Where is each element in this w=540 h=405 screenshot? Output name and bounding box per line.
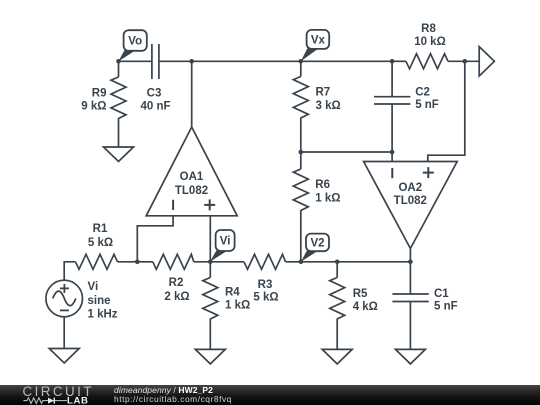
label R2 value 2 k&#937; (164, 291, 189, 303)
resistor R2 (153, 254, 194, 269)
op-amp OA2 triangle (364, 162, 458, 249)
junction dot OA1 output on top rail (189, 59, 194, 64)
output flag triangle (479, 47, 494, 76)
node Vx junction dot (299, 59, 304, 64)
CircuitLab logo (22, 384, 114, 405)
label C1 name (434, 288, 449, 300)
label R6 value 1 k&#937; (315, 193, 340, 205)
wire top rail: C3 right plate to OA1 output junction (160, 60, 192, 62)
wire R5 to ground (336, 319, 338, 350)
label R1 value 5 k&#937; (88, 237, 113, 249)
svg-text:R6: R6 (315, 179, 330, 191)
label OA1 name (180, 171, 204, 183)
wire C2 bottom to OA2 inverting input (391, 104, 393, 162)
junction dot R1/R2/OA1 inverting (135, 260, 140, 265)
capacitor C3 left plate (151, 44, 153, 79)
node Vo junction dot (116, 59, 121, 64)
junction dot R5 top (335, 260, 340, 265)
node Vi label flag (210, 230, 235, 262)
svg-text:Vi: Vi (88, 281, 99, 293)
op-amp OA2 non-inverting input mark (423, 167, 434, 178)
svg-text:sine: sine (88, 295, 111, 307)
wire R2 to Vi node (194, 261, 211, 263)
junction dot OA2 output/C1 (408, 260, 413, 265)
wire OA2 output down to bottom rail (409, 249, 411, 262)
svg-text:Vo: Vo (128, 36, 142, 48)
wire OA1 inverting input to R1/R2 junction (137, 216, 173, 262)
label C1 value 5 nF (434, 300, 458, 312)
label R9 name (92, 87, 107, 99)
resistor R1 (76, 254, 118, 269)
svg-text:R8: R8 (421, 23, 436, 35)
wire top rail: Vo node to C3 left plate (119, 60, 152, 62)
svg-text:1 kHz: 1 kHz (88, 309, 118, 321)
label OA1 value TL082 (175, 185, 208, 197)
svg-text:2 kΩ: 2 kΩ (164, 291, 189, 303)
svg-text:Vx: Vx (311, 35, 326, 47)
op-amp OA1 triangle (146, 127, 237, 216)
svg-text:R2: R2 (169, 277, 184, 289)
wire OA1 non-inverting input down to Vi node (209, 216, 211, 262)
wire junction to R2 (137, 261, 153, 263)
resistor R7 (293, 77, 308, 119)
svg-text:5 nF: 5 nF (434, 300, 458, 312)
capacitor C3 right plate (158, 44, 160, 79)
wire V2 rail down to R5 (336, 262, 338, 278)
footer credit text (114, 386, 232, 403)
label R7 value 3 k&#937; (316, 100, 341, 112)
resistor R3 (244, 254, 286, 269)
wire mid rail: R7/R6 junction to C2 bottom junction (301, 151, 393, 153)
wire R8 right to output flag junction (448, 60, 479, 62)
wire source bottom to ground (63, 317, 65, 349)
label R3 value 5 k&#937; (253, 292, 278, 304)
wire R5 junction to OA2 output junction (337, 261, 410, 263)
svg-text:OA1: OA1 (180, 171, 204, 183)
label R5 value 4 k&#937; (353, 301, 378, 313)
label R7 name (316, 87, 331, 99)
wire mid junction down to R6 (300, 152, 302, 169)
svg-text:R9: R9 (92, 87, 107, 99)
svg-text:9 kΩ: 9 kΩ (81, 101, 106, 113)
svg-text:TL082: TL082 (175, 185, 208, 197)
node Vo label flag (119, 30, 147, 61)
wire V2 node to R5 junction (301, 261, 337, 263)
resistor R9 (111, 77, 126, 119)
wire R3 to V2 node (286, 261, 301, 263)
svg-text:TL082: TL082 (394, 195, 427, 207)
svg-text:C3: C3 (147, 87, 162, 99)
svg-text:C2: C2 (415, 86, 430, 98)
label R8 value 10 k&#937; (414, 36, 446, 48)
label OA2 name (398, 182, 422, 194)
svg-text:3 kΩ: 3 kΩ (316, 100, 341, 112)
svg-text:40 nF: 40 nF (140, 101, 170, 113)
node Vx label flag (301, 30, 329, 61)
label OA2 value TL082 (394, 195, 427, 207)
label source frequency 1 kHz (88, 309, 118, 321)
wire R6 down to V2 node (300, 210, 302, 262)
junction dot C2 top on top rail (390, 59, 395, 64)
wire top rail: OA1 output junction to Vx node (192, 60, 301, 62)
svg-text:R4: R4 (225, 287, 240, 299)
resistor R8 (406, 54, 448, 69)
label R2 name (169, 277, 184, 289)
voltage source V1 circle (46, 280, 83, 317)
ground under R5 (322, 349, 352, 364)
label source name Vi (88, 281, 99, 293)
label R5 name (353, 288, 368, 300)
svg-text:Vi: Vi (220, 236, 231, 248)
resistor R6 (293, 169, 308, 211)
wire R7 to mid junction (300, 118, 302, 153)
wire OA2 non-inverting input up and over to R8 output node (428, 61, 465, 161)
wire top rail: C2 junction to R8 (392, 60, 406, 62)
svg-text:LAB: LAB (67, 395, 89, 405)
node V2 junction dot (299, 260, 304, 265)
junction dot R7/R6/C2 mid rail left (299, 150, 304, 155)
wire top rail: Vx node to C2 top junction (301, 60, 392, 62)
svg-text:5 kΩ: 5 kΩ (88, 237, 113, 249)
op-amp OA1 non-inverting input mark (204, 199, 215, 210)
wire C1 to ground (409, 302, 411, 350)
wire OA1 output up to top rail (191, 61, 193, 127)
wire C2 top junction down to C2 (391, 61, 393, 96)
wire Vi node down to R4 (209, 262, 211, 278)
label C2 value 5 nF (415, 99, 439, 111)
label R8 name (421, 23, 436, 35)
capacitor C2 bottom plate (374, 103, 410, 105)
svg-text:R1: R1 (93, 223, 108, 235)
ground under R9 (104, 147, 134, 162)
resistor R5 (330, 278, 345, 320)
capacitor C1 bottom plate (392, 301, 428, 303)
svg-text:R3: R3 (258, 279, 273, 291)
label C3 name (147, 87, 162, 99)
op-amp OA2 inverting input mark (391, 168, 393, 178)
svg-text:V2: V2 (310, 238, 324, 250)
svg-text:OA2: OA2 (398, 182, 422, 194)
svg-text:4 kΩ: 4 kΩ (353, 301, 378, 313)
label R3 name (258, 279, 273, 291)
op-amp OA1 inverting input mark (172, 200, 174, 210)
ground under C1 (395, 349, 425, 364)
svg-text:R7: R7 (316, 87, 331, 99)
wire source top to R1 (64, 262, 75, 280)
label C3 value 40 nF (140, 101, 170, 113)
capacitor C1 top plate (392, 293, 428, 295)
wire R9 to ground (118, 118, 120, 147)
label R4 value 1 k&#937; (225, 300, 250, 312)
voltage source plus sign (60, 284, 69, 293)
svg-text:10 kΩ: 10 kΩ (414, 36, 446, 48)
node Vi junction dot (208, 260, 213, 265)
junction dot OA2 feedback on top rail (463, 59, 468, 64)
label C2 name (415, 86, 430, 98)
node V2 label flag (301, 234, 329, 262)
wire Vi node to R3 (210, 261, 244, 263)
wire OA2 output junction down to C1 (409, 262, 411, 294)
capacitor C2 top plate (374, 96, 410, 98)
footer bar (0, 385, 540, 405)
svg-text:5 kΩ: 5 kΩ (253, 292, 278, 304)
svg-text:1 kΩ: 1 kΩ (225, 300, 250, 312)
label R4 name (225, 287, 240, 299)
junction dot mid rail right at C2 bottom (390, 150, 395, 155)
wire R1 to R1/R2 junction (118, 261, 138, 263)
voltage source sine wave (53, 291, 76, 306)
wire Vo node down to R9 (118, 61, 120, 77)
svg-text:R5: R5 (353, 288, 368, 300)
wire Vx node down to R7 (300, 61, 302, 76)
ground under source (49, 349, 79, 364)
label R1 name (93, 223, 108, 235)
wire R4 to ground (209, 319, 211, 350)
svg-text:C1: C1 (434, 288, 449, 300)
ground under R4 (195, 349, 225, 364)
label source type sine (88, 295, 111, 307)
label R6 name (315, 179, 330, 191)
svg-text:1 kΩ: 1 kΩ (315, 193, 340, 205)
svg-text:5 nF: 5 nF (415, 99, 439, 111)
voltage source minus sign (60, 309, 69, 311)
label R9 value 9 k&#937; (81, 101, 106, 113)
resistor R4 (203, 278, 218, 320)
